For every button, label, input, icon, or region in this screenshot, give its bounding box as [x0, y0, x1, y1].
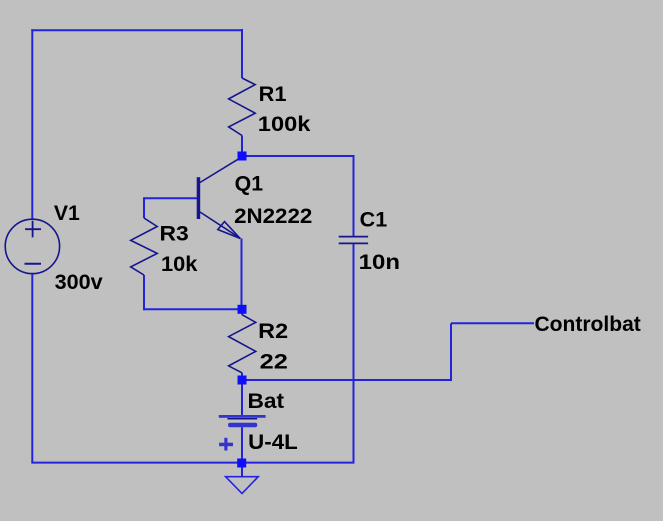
svg-text:R2: R2: [258, 320, 288, 343]
svg-text:Q1: Q1: [235, 172, 264, 195]
svg-text:Controlbat: Controlbat: [535, 313, 641, 336]
svg-text:Bat: Bat: [248, 390, 285, 413]
svg-text:300v: 300v: [55, 271, 103, 294]
svg-text:R1: R1: [259, 83, 287, 106]
svg-text:V1: V1: [54, 202, 80, 225]
svg-text:10n: 10n: [359, 251, 400, 274]
svg-text:R3: R3: [160, 223, 189, 246]
svg-text:2N2222: 2N2222: [234, 205, 312, 228]
svg-text:10k: 10k: [161, 253, 198, 276]
svg-text:100k: 100k: [258, 113, 311, 136]
svg-text:22: 22: [260, 351, 288, 374]
svg-text:C1: C1: [360, 209, 388, 232]
svg-text:U-4L: U-4L: [248, 431, 298, 454]
